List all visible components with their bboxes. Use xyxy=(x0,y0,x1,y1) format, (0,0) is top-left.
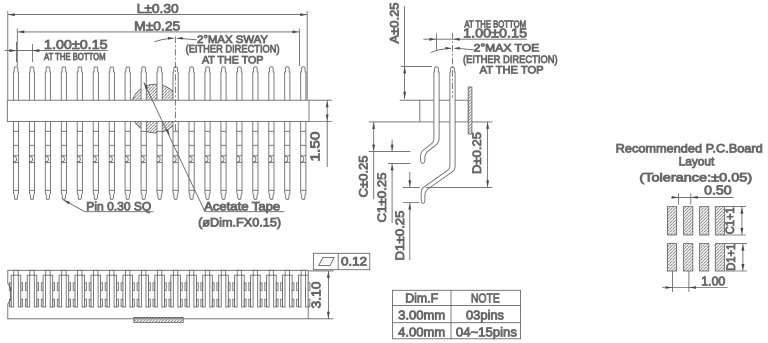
note 2°MAX SWAY (EITHER DIRECTION) AT THE TOP with leaders xyxy=(155,34,280,67)
label Pin 0.30 SQ with leader to pin 4 tip xyxy=(63,200,153,214)
svg-text:1.00±0.15: 1.00±0.15 xyxy=(463,25,527,40)
svg-text:AT THE TOP: AT THE TOP xyxy=(202,55,264,67)
svg-text:L±0.30: L±0.30 xyxy=(137,1,179,16)
bottom view pin position 3 xyxy=(41,270,54,307)
bottom view pin position 16 xyxy=(249,270,262,307)
front view pin 10 bottom tail xyxy=(157,121,162,199)
front view pin 11 bottom tail xyxy=(173,121,178,199)
front view pin 1 top post xyxy=(13,67,18,101)
side view front-row pin (bent lead, upper tail) xyxy=(421,67,440,164)
front view pin 14 bottom tail xyxy=(221,121,226,199)
svg-text:Pin 0.30 SQ: Pin 0.30 SQ xyxy=(86,201,151,213)
bottom view pin position 6 xyxy=(89,270,102,307)
svg-text:(øDim.FX0.15): (øDim.FX0.15) xyxy=(198,217,281,229)
front view vertical centerline through pin 11 xyxy=(174,37,176,133)
svg-text:(Tolerance:±0.05): (Tolerance:±0.05) xyxy=(639,170,752,184)
svg-text:0.50: 0.50 xyxy=(704,184,732,198)
front view pin 13 top post xyxy=(205,67,210,101)
svg-text:Dim.F: Dim.F xyxy=(405,292,438,306)
front view pin 2 top post xyxy=(29,67,34,101)
svg-text:C1±0.25: C1±0.25 xyxy=(375,172,389,222)
bottom view pin position 9 xyxy=(137,270,150,307)
PCB pad bottom row 3 xyxy=(700,244,709,271)
PCB pad top row 3 xyxy=(700,207,709,235)
front view pin 19 bottom tail xyxy=(301,121,306,199)
PCB pad top row 2 xyxy=(684,207,693,235)
flatness feature control frame 0.12 xyxy=(313,253,369,269)
front view pin 7 top post xyxy=(109,67,114,101)
front view pin 4 top post xyxy=(61,67,66,101)
front view pin 13 bottom tail xyxy=(205,121,210,199)
bottom view pin position 1 xyxy=(9,270,22,307)
svg-text:Recommended P.C.Board: Recommended P.C.Board xyxy=(616,142,763,156)
front view pin 4 bottom tail xyxy=(61,121,66,199)
note 2°MAX TOE (EITHER DIRECTION) AT THE TOP with leaders xyxy=(431,43,558,77)
front view pin 6 bottom tail xyxy=(93,121,98,199)
front view pin 12 bottom tail xyxy=(189,121,194,199)
dimension 3.10 (bottom view width) xyxy=(308,271,333,319)
dimension 0.50 (pad spacing) xyxy=(671,184,733,205)
svg-text:M±0.25: M±0.25 xyxy=(134,19,180,34)
PCB layout title text xyxy=(616,142,763,185)
front view pin 3 bottom tail xyxy=(45,121,50,199)
dimension D1±0.25 (lower tail tip) xyxy=(393,172,420,261)
front view pin 9 top post xyxy=(141,67,146,101)
svg-text:Acetate Tape: Acetate Tape xyxy=(204,201,280,213)
svg-text:3.00mm: 3.00mm xyxy=(398,309,445,323)
bottom view pin position 18 xyxy=(281,270,294,307)
front view pin 17 top post xyxy=(269,67,274,101)
bottom view pin position 7 xyxy=(105,270,118,307)
svg-text:04~15pins: 04~15pins xyxy=(456,325,517,339)
dimension L±0.30 (front view overall) xyxy=(8,1,307,99)
bottom view insulator outline with end notches xyxy=(8,270,308,319)
bottom view pin position 2 xyxy=(25,270,38,307)
dimension 1.00±0.15 AT THE BOTTOM (side view row pitch) xyxy=(423,19,527,50)
PCB pad bottom row 4 xyxy=(715,244,724,271)
bottom view pin position 12 xyxy=(185,270,198,307)
front view pin 3 top post xyxy=(45,67,50,101)
front view pin 8 top post xyxy=(125,67,130,101)
PCB pad bottom row 1 xyxy=(667,244,676,271)
side view centerline through back-row pin xyxy=(452,33,454,98)
front view pin 8 bottom tail xyxy=(125,121,130,199)
front view pin 18 bottom tail xyxy=(285,121,290,199)
bottom view pin position 8 xyxy=(121,270,134,307)
front view pin 5 bottom tail xyxy=(77,121,82,199)
bottom view pin position 11 xyxy=(169,270,182,307)
front view pin 10 top post xyxy=(157,67,162,101)
svg-text:C±0.25: C±0.25 xyxy=(357,155,371,197)
front view pin 15 top post xyxy=(237,67,242,101)
svg-text:A±0.25: A±0.25 xyxy=(388,2,402,43)
bottom view pin position 5 xyxy=(73,270,86,307)
svg-text:1.00±0.15: 1.00±0.15 xyxy=(44,37,108,52)
svg-text:C1+1: C1+1 xyxy=(725,207,737,234)
svg-text:1.50: 1.50 xyxy=(308,132,323,162)
svg-text:AT THE TOP: AT THE TOP xyxy=(480,64,544,76)
acetate tape circle (front view) xyxy=(131,84,180,133)
front view pin 17 bottom tail xyxy=(269,121,274,199)
side view acetate tape strip xyxy=(468,87,472,134)
dimension D±0.25 (body bottom to lower tail) xyxy=(426,122,493,187)
svg-text:D1+1: D1+1 xyxy=(726,244,738,271)
front view pin 2 bottom tail xyxy=(29,121,34,199)
dimension C1±0.25 (upper tail tip) xyxy=(375,140,410,224)
svg-text:3.10: 3.10 xyxy=(310,281,324,308)
dimension C±0.25 (body bottom to upper tail) xyxy=(357,122,420,199)
svg-text:Layout: Layout xyxy=(679,155,715,169)
dimension D1+1 (bottom pad length) xyxy=(725,244,748,271)
front view pin 12 top post xyxy=(189,67,194,101)
bottom view acetate tape strip xyxy=(134,317,183,322)
svg-text:(EITHER DIRECTION): (EITHER DIRECTION) xyxy=(186,43,280,55)
front view pin 5 top post xyxy=(77,67,82,101)
svg-text:1.00: 1.00 xyxy=(701,274,725,288)
bottom view pin position 14 xyxy=(217,270,230,307)
svg-text:D1±0.25: D1±0.25 xyxy=(393,210,407,260)
front view pin 11 top post xyxy=(173,67,178,101)
svg-text:D±0.25: D±0.25 xyxy=(470,132,484,174)
svg-text:NOTE: NOTE xyxy=(471,292,500,306)
bottom view pin position 19 xyxy=(297,270,310,307)
svg-text:2°MAX TOE: 2°MAX TOE xyxy=(474,43,540,55)
bottom view pin position 10 xyxy=(153,270,166,307)
bottom view pin position 17 xyxy=(265,270,278,307)
PCB pad top row 1 xyxy=(667,207,676,235)
front view pin 14 top post xyxy=(221,67,226,101)
front view pin 16 top post xyxy=(253,67,258,101)
front view pin 7 bottom tail xyxy=(109,121,114,199)
front view insulator body bar xyxy=(7,100,309,121)
dimension 1.00 (pad pitch) xyxy=(662,271,728,292)
bottom view pin position 15 xyxy=(233,270,246,307)
front view pin 6 top post xyxy=(93,67,98,101)
PCB pad top row 4 xyxy=(715,207,724,235)
table Dim.F / NOTE xyxy=(393,290,521,339)
svg-text:0.12: 0.12 xyxy=(341,254,367,268)
front view pin 16 bottom tail xyxy=(253,121,258,199)
front view pin 18 top post xyxy=(285,67,290,101)
svg-text:03pins: 03pins xyxy=(466,309,504,323)
front view pin 9 bottom tail xyxy=(141,121,146,199)
front view pin 19 top post xyxy=(301,67,306,101)
PCB pad bottom row 2 xyxy=(684,244,693,271)
front view pin 1 bottom tail xyxy=(13,121,18,199)
svg-text:AT THE BOTTOM: AT THE BOTTOM xyxy=(44,52,106,63)
svg-text:4.00mm: 4.00mm xyxy=(398,325,445,339)
front view pin 15 bottom tail xyxy=(237,121,242,199)
bottom view pin position 13 xyxy=(201,270,214,307)
dimension M±0.25 (front view pin span) xyxy=(17,19,299,66)
side view insulator body xyxy=(420,100,468,122)
bottom view pin position 4 xyxy=(57,270,70,307)
label Acetate Tape (ØDim.FX0.15) with diameter leader xyxy=(144,82,284,229)
dimension 1.00±0.15 AT THE BOTTOM (front view pin pitch) xyxy=(4,37,107,63)
dimension C1+1 (top pad length) xyxy=(725,207,747,235)
dimension 1.50 (front view body height) xyxy=(308,100,332,167)
dimension A±0.25 (pin height above body) xyxy=(388,2,432,100)
side view back-row pin (bent lead, lower tail) xyxy=(421,67,455,204)
